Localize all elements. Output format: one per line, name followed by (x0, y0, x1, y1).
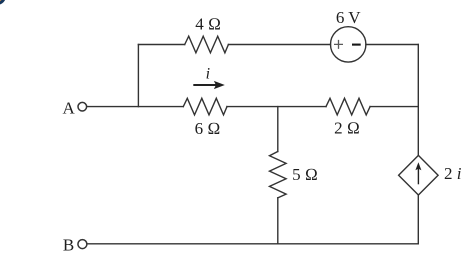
svg-text:6 Ω: 6 Ω (195, 119, 221, 138)
voltage source plus sign (334, 40, 343, 49)
terminal A circle (78, 102, 87, 111)
dependent source arrow (417, 169, 419, 185)
resistor 6Ω (183, 98, 227, 115)
wire 2Ω to right vertical (370, 106, 418, 108)
wire A to 6Ω (87, 106, 184, 108)
svg-text:A: A (63, 98, 76, 117)
resistor 4Ω (185, 36, 229, 53)
resistor 2Ω (326, 98, 370, 115)
voltage source 6V (331, 27, 366, 62)
wire top-left segment (138, 44, 184, 46)
wire bottom (88, 243, 419, 245)
terminal B circle (78, 240, 87, 249)
svg-text:2 i: 2 i (444, 164, 462, 183)
wire 5Ω branch upper (277, 107, 279, 152)
svg-text:i: i (206, 66, 210, 83)
svg-text:4 Ω: 4 Ω (195, 14, 221, 33)
current arrow i (193, 84, 216, 86)
svg-text:5 Ω: 5 Ω (292, 165, 318, 184)
resistor 5Ω (270, 152, 287, 198)
svg-text:2 Ω: 2 Ω (334, 119, 360, 138)
svg-text:6 V: 6 V (336, 8, 361, 27)
wire left branch vertical (137, 45, 139, 107)
wire 6V source to top-right corner (366, 44, 418, 46)
wire right vertical lower (417, 195, 419, 244)
wire 4Ω to 6V source (228, 44, 330, 46)
decorative corner fragment (0, 0, 3, 2)
wire 5Ω branch lower (277, 198, 279, 244)
voltage source minus sign (352, 44, 361, 46)
wire 6Ω to 2Ω (227, 106, 326, 108)
svg-text:B: B (63, 236, 74, 255)
dependent current source 2i diamond (399, 155, 439, 195)
wire right vertical upper (417, 45, 419, 156)
